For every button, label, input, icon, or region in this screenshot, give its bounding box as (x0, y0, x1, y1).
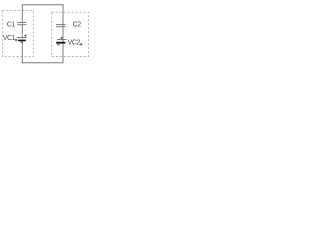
dashed group box right (52, 12, 89, 56)
capacitor C2 (56, 25, 65, 27)
wire bottom rail (22, 62, 63, 64)
wire top rail (22, 4, 63, 6)
svg-text:VC2: VC2 (68, 39, 81, 46)
svg-text:VC1: VC1 (3, 35, 16, 42)
wire right vertical (continuous) (62, 4, 64, 63)
wire left vertical middle (21, 25, 23, 38)
wire faint crossing at C1 gap (21, 23, 23, 25)
wire left vertical lower (21, 41, 23, 63)
plus polarity VC1 (24, 35, 26, 37)
label VC2 subscript plus (80, 43, 82, 45)
plus polarity VC2 (61, 37, 63, 39)
label VC1 subscript plus (15, 39, 17, 41)
polarized capacitor VC1 (17, 38, 27, 43)
dashed group box left (2, 11, 33, 57)
wire left vertical upper (21, 4, 23, 22)
polarized capacitor VC2 (56, 40, 66, 45)
wire faint crossing at VC1 gap (21, 38, 23, 40)
capacitor C1 (17, 23, 26, 25)
background (0, 0, 95, 72)
svg-text:C2: C2 (73, 22, 82, 29)
svg-text:C1: C1 (7, 22, 16, 29)
